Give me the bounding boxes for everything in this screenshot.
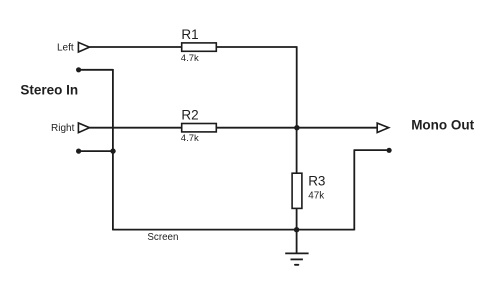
wire Right input to R2 bbox=[90, 127, 182, 129]
value 47k (R3) bbox=[308, 190, 324, 201]
output terminal Mono Out bbox=[377, 123, 389, 132]
svg-text:R3: R3 bbox=[308, 173, 325, 188]
svg-text:47k: 47k bbox=[308, 190, 324, 201]
svg-text:R1: R1 bbox=[181, 27, 198, 42]
value 4.7k (R2) bbox=[181, 133, 199, 144]
wire mono screen horizontal bbox=[354, 149, 390, 151]
svg-text:4.7k: 4.7k bbox=[181, 53, 199, 64]
resistor R3 bbox=[292, 173, 302, 208]
label R2 bbox=[181, 107, 198, 122]
terminal dot Right screen bbox=[76, 149, 81, 154]
svg-text:Stereo In: Stereo In bbox=[20, 83, 78, 98]
wire mix node to output arrow bbox=[297, 127, 377, 129]
label Stereo In bbox=[20, 83, 78, 98]
svg-text:Left: Left bbox=[57, 42, 74, 53]
svg-text:Mono Out: Mono Out bbox=[411, 118, 474, 133]
terminal dot Mono Out screen bbox=[387, 148, 392, 153]
value 4.7k (R1) bbox=[181, 53, 199, 64]
svg-text:R2: R2 bbox=[181, 107, 198, 122]
label Right bbox=[51, 123, 75, 134]
ground bbox=[285, 230, 308, 265]
junction screen bus bbox=[110, 148, 115, 153]
wire R2 to mix node bbox=[216, 127, 297, 129]
wire Right screen to bus bbox=[79, 150, 113, 152]
wire R3 to screen rail bbox=[296, 208, 298, 229]
svg-text:Right: Right bbox=[51, 123, 75, 134]
label Screen bbox=[147, 232, 178, 243]
wire R1 to corner bbox=[216, 46, 296, 48]
wire Left input to R1 bbox=[90, 46, 182, 48]
label R1 bbox=[181, 27, 198, 42]
wire screen bus vertical bbox=[112, 69, 114, 230]
wire Left screen to bus bbox=[79, 69, 113, 71]
terminal dot Left screen bbox=[76, 67, 81, 72]
wire mono screen vertical bbox=[353, 150, 355, 230]
svg-text:4.7k: 4.7k bbox=[181, 133, 199, 144]
resistor R1 bbox=[182, 43, 217, 51]
input terminal Left bbox=[78, 42, 89, 52]
junction screen rail at ground bbox=[294, 227, 299, 232]
wire mix node down to R3 bbox=[296, 128, 298, 174]
input terminal Right bbox=[78, 123, 89, 133]
junction mix node bbox=[294, 125, 299, 130]
label Mono Out bbox=[411, 118, 474, 133]
wire corner down to mix node bbox=[296, 46, 298, 128]
svg-text:Screen: Screen bbox=[147, 232, 178, 243]
resistor R2 bbox=[182, 124, 217, 132]
label Left bbox=[57, 42, 74, 53]
label R3 bbox=[308, 173, 325, 188]
wire screen rail horizontal bbox=[113, 229, 354, 231]
